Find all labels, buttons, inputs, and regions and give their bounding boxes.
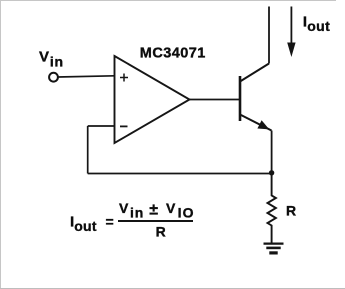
label Iout (303, 14, 330, 35)
op-amp U1 non-inverting input + (120, 74, 128, 82)
wire feedback bottom horizontal to junction (88, 173, 272, 175)
formula Iout = (Vin ± VIO) / R (70, 200, 195, 240)
transistor Q1 base bar (239, 76, 242, 121)
wire Q1 emitter down to junction (271, 131, 273, 174)
svg-text:V: V (39, 49, 49, 66)
svg-text:R: R (286, 203, 296, 219)
wire feedback left vertical (87, 126, 89, 174)
svg-text:in: in (50, 54, 64, 70)
current arrow Iout (287, 7, 295, 58)
svg-text:in: in (130, 204, 144, 220)
op-amp U1 inverting input - (120, 125, 128, 127)
transistor Q1 collector lead (240, 64, 269, 82)
label R (286, 203, 296, 219)
svg-text:=: = (106, 213, 114, 229)
op-amp U1 triangle (115, 56, 190, 143)
svg-text:R: R (156, 224, 166, 240)
label MC34071 (140, 46, 206, 62)
wire Vin terminal to op-amp + input (58, 76, 115, 77)
svg-text:MC34071: MC34071 (140, 46, 206, 62)
svg-text:IO: IO (178, 204, 195, 220)
svg-text:V: V (119, 200, 129, 216)
svg-text:V: V (166, 200, 176, 216)
wire Q1 collector up to top (268, 7, 270, 64)
wire op-amp output to Q1 base (190, 99, 240, 101)
transistor Q1 emitter lead with arrow (240, 115, 272, 131)
svg-text:out: out (307, 18, 330, 34)
input terminal Vin (49, 73, 58, 82)
svg-text:out: out (74, 218, 97, 234)
svg-text:±: ± (149, 202, 158, 219)
resistor R (268, 173, 276, 243)
wire feedback from op-amp inverting input (88, 125, 115, 127)
label Vin (39, 49, 64, 70)
junction node dot (269, 170, 274, 175)
ground (264, 244, 284, 253)
